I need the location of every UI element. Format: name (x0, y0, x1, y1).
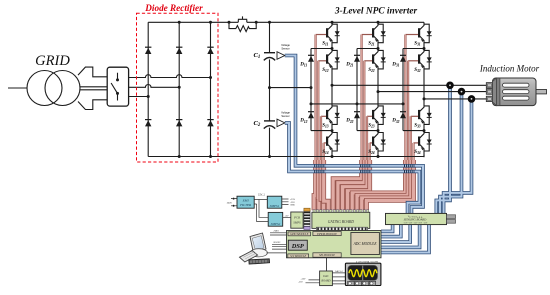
svg-text:S34: S34 (414, 150, 421, 155)
svg-text:DSP: DSP (291, 243, 304, 250)
svg-text:ADC MODULE: ADC MODULE (353, 242, 378, 246)
svg-text:EMI: EMI (242, 198, 250, 202)
svg-text:S24: S24 (368, 150, 375, 155)
svg-text:+15V: +15V (290, 199, 296, 201)
svg-text:PCB: PCB (293, 216, 300, 220)
svg-text:+5V: +5V (285, 215, 289, 217)
svg-text:SMPS: SMPS (293, 221, 301, 225)
svg-text:S13: S13 (322, 123, 329, 128)
svg-text:S11: S11 (322, 42, 328, 47)
svg-text:RS232: RS232 (274, 242, 281, 244)
svg-text:+15V: +15V (301, 278, 307, 280)
svg-text:D31: D31 (391, 62, 399, 67)
svg-text:D12: D12 (299, 119, 307, 124)
svg-text:S33: S33 (414, 123, 421, 128)
svg-text:SPI MODULE: SPI MODULE (319, 254, 335, 257)
svg-text:GRID: GRID (35, 53, 70, 69)
svg-text:-15V: -15V (290, 202, 295, 204)
svg-text:GPIO MODULE: GPIO MODULE (290, 233, 309, 236)
svg-text:+15V -15V +15V -15V +15V: +15V -15V +15V -15V +15V (403, 223, 428, 225)
svg-text:S21: S21 (368, 42, 375, 47)
svg-text:EPWM MODULE: EPWM MODULE (316, 233, 337, 236)
svg-text:FILTER: FILTER (239, 203, 252, 207)
svg-text:-15V: -15V (298, 281, 303, 283)
svg-text:D21: D21 (345, 62, 353, 67)
svg-text:240V: 240V (227, 203, 233, 205)
svg-text:15V_1: 15V_1 (258, 195, 265, 197)
svg-text:SMPS2: SMPS2 (271, 222, 281, 226)
svg-text:S23: S23 (368, 123, 375, 128)
svg-text:Induction Motor: Induction Motor (479, 64, 540, 74)
svg-text:D22: D22 (345, 119, 353, 124)
svg-text:GATING BOARD: GATING BOARD (328, 220, 355, 224)
svg-text:3-Level NPC inverter: 3-Level NPC inverter (334, 7, 418, 17)
svg-text:S12: S12 (322, 68, 329, 73)
svg-text:BOARD: BOARD (321, 280, 330, 283)
svg-text:DAC: DAC (322, 275, 329, 278)
svg-text:SENSING BOARD: SENSING BOARD (404, 218, 427, 222)
svg-text:S31: S31 (414, 42, 421, 47)
svg-text:DAC1-4: DAC1-4 (335, 270, 343, 273)
svg-text:SCI MODULE: SCI MODULE (290, 255, 306, 258)
svg-text:JTAG: JTAG (273, 230, 279, 233)
svg-text:S22: S22 (368, 68, 375, 73)
svg-text:S32: S32 (414, 68, 421, 73)
svg-text:GND: GND (290, 205, 295, 207)
svg-text:Sensor: Sensor (281, 46, 289, 50)
svg-text:SMPS1: SMPS1 (270, 204, 280, 208)
svg-text:Sensor: Sensor (281, 114, 289, 118)
svg-text:D11: D11 (299, 62, 307, 67)
svg-text:D32: D32 (391, 119, 399, 124)
svg-text:Diode Rectifier: Diode Rectifier (144, 3, 203, 13)
svg-text:S14: S14 (322, 150, 329, 155)
